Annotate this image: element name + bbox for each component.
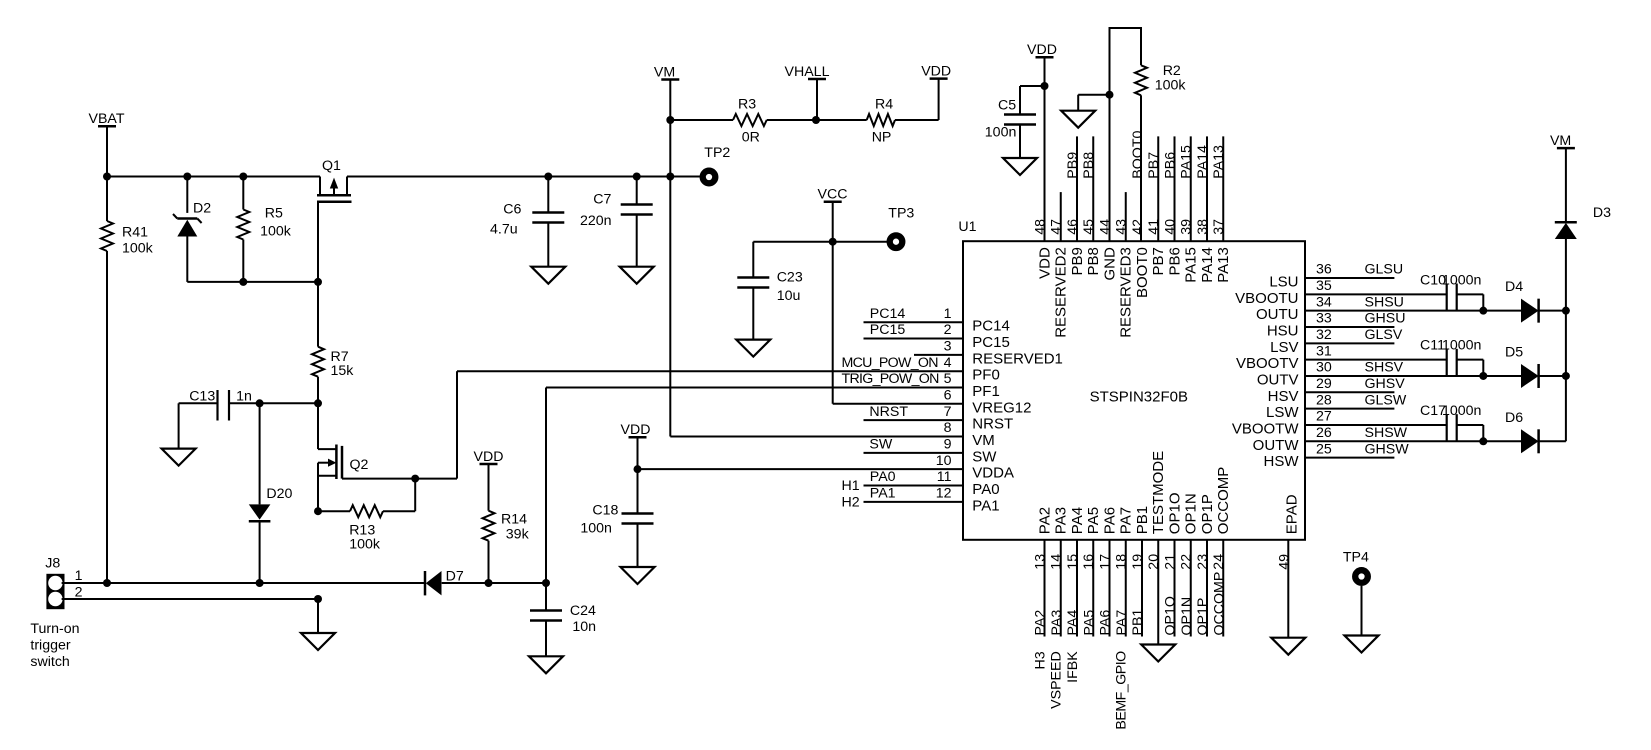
svg-text:D3: D3 [1593,205,1611,221]
power flag VBAT [98,125,116,128]
wire diode to VM bus [1539,440,1566,442]
svg-text:GHSW: GHSW [1365,441,1410,457]
resistor R2 [1135,65,1147,95]
resistor R41 [106,177,108,222]
svg-text:19: 19 [1130,554,1146,570]
pin 33 lead [1305,326,1394,328]
ground TP4 [1361,586,1363,636]
svg-text:IFBK: IFBK [1065,651,1081,683]
svg-text:PF1: PF1 [972,383,1000,400]
svg-text:D5: D5 [1505,344,1523,360]
svg-text:46: 46 [1065,219,1081,235]
svg-text:VBOOTV: VBOOTV [1236,355,1299,372]
svg-text:PA3: PA3 [1053,507,1070,534]
IC U1 STSPIN32F0B body [963,241,1305,540]
junction C11/SHS [1479,372,1487,380]
test point TP4 [1355,570,1368,583]
resistor R14 [488,465,490,511]
resistor R7 [312,347,324,377]
pin 11 lead [864,485,964,487]
pin 32 lead [1305,342,1394,344]
wire TRIG_POW_ON vertical [545,388,547,583]
transistor Q1 (P-MOSFET) [319,177,321,195]
svg-text:D20: D20 [266,486,292,502]
junction Q2 source/ground [314,595,322,603]
junction C5 [1041,82,1049,90]
resistor R4 [816,119,867,121]
svg-text:VDD: VDD [621,422,651,438]
ground EPAD [1271,638,1305,655]
pin 9 lead [864,452,964,454]
svg-text:100n: 100n [985,125,1017,141]
pin 28 lead [1305,408,1394,410]
junction VHALL [812,116,820,124]
svg-text:27: 27 [1316,409,1332,425]
capacitor C6 [544,173,552,181]
wire GND to R2 loop [1110,28,1142,95]
pin 18 lead [1125,540,1127,637]
connector J8 [46,574,64,609]
pin 1 lead [864,321,964,323]
svg-text:D7: D7 [446,568,464,584]
svg-text:OP1P: OP1P [1195,598,1211,636]
svg-text:PB1: PB1 [1134,506,1151,534]
svg-text:OP1N: OP1N [1179,597,1195,636]
junction C24/TRIG [542,579,550,587]
svg-text:34: 34 [1316,294,1332,310]
svg-text:PA1: PA1 [870,486,896,502]
ground C5 [1003,158,1037,175]
svg-text:220n: 220n [580,213,612,229]
transistor Q2 (N-MOSFET) [317,403,319,449]
svg-text:PA14: PA14 [1199,247,1216,283]
svg-text:HSW: HSW [1264,453,1300,470]
svg-text:PA15: PA15 [1179,145,1195,179]
svg-text:1n: 1n [236,388,252,404]
svg-text:1: 1 [944,306,952,322]
resistor R3 [670,119,733,121]
svg-text:PA6: PA6 [1098,610,1114,636]
svg-text:BEMF_GPIO: BEMF_GPIO [1114,651,1130,730]
pin 29 lead [1305,391,1394,393]
svg-text:PA14: PA14 [1195,145,1211,179]
junction VM/main rail [666,173,674,181]
svg-text:1000n: 1000n [1442,272,1481,288]
junction D20 bottom [256,579,264,587]
capacitor C5 [1020,85,1045,87]
pin 47 stub [1060,192,1062,241]
junction VDDA [634,465,642,473]
svg-text:HSV: HSV [1268,388,1299,405]
svg-text:PA4: PA4 [1069,507,1086,534]
svg-text:28: 28 [1316,392,1332,408]
wire VM bus [1565,239,1567,441]
svg-text:PC15: PC15 [972,334,1010,351]
svg-text:15k: 15k [331,363,355,379]
pin 41 lead / net PB7 [1157,136,1159,241]
svg-text:VDDA: VDDA [972,465,1014,482]
svg-text:7: 7 [944,404,952,420]
svg-text:12: 12 [936,486,952,502]
svg-text:C5: C5 [998,98,1016,114]
svg-text:VCC: VCC [818,187,848,203]
ground pin 44 [1078,94,1109,96]
svg-text:Q2: Q2 [350,457,369,473]
svg-text:VM: VM [972,432,995,449]
svg-text:SHSU: SHSU [1365,294,1404,310]
svg-text:GLSW: GLSW [1365,392,1407,408]
svg-text:R41: R41 [122,225,148,241]
svg-text:J8: J8 [45,556,60,572]
svg-text:32: 32 [1316,327,1332,343]
svg-text:100k: 100k [260,224,292,240]
pin 19 lead [1141,540,1143,637]
svg-text:LSW: LSW [1266,404,1299,421]
svg-text:PC15: PC15 [870,322,906,338]
pin 45 lead / net PB8 [1092,136,1094,241]
svg-text:1000n: 1000n [1442,338,1481,354]
wire D2/R5 bottom to Q1 gate node [187,281,318,283]
pin 15 lead [1076,540,1078,637]
svg-text:PC14: PC14 [870,306,906,322]
junction D2 top [183,173,191,181]
capacitor C11 [1305,359,1447,361]
capacitor C24 [545,583,547,611]
svg-text:6: 6 [944,388,952,404]
svg-text:BOOT0: BOOT0 [1130,130,1146,178]
svg-text:18: 18 [1114,554,1130,570]
pin 3 lead [914,354,963,356]
svg-text:48: 48 [1033,219,1049,235]
svg-text:VBOOTW: VBOOTW [1232,420,1300,437]
svg-text:PB9: PB9 [1069,247,1086,275]
power flag VDD (C18) [629,436,647,439]
svg-text:10: 10 [936,453,952,469]
svg-text:PB8: PB8 [1085,247,1102,275]
svg-text:TESTMODE: TESTMODE [1150,451,1167,534]
pin 49 EPAD lead [1287,540,1289,638]
wire VBAT rail [107,176,320,178]
svg-text:3: 3 [944,339,952,355]
svg-text:VDD: VDD [1037,247,1054,279]
power flag VDD (C5) [1036,56,1054,59]
svg-text:OP1O: OP1O [1167,493,1184,535]
pin 7 lead [864,419,964,421]
svg-text:22: 22 [1179,554,1195,570]
svg-text:H2: H2 [842,494,860,510]
svg-text:C13: C13 [189,388,215,404]
wire VDD pin 48 lead [1044,58,1046,242]
svg-text:OUTW: OUTW [1253,437,1300,454]
power flag VM [661,78,679,81]
svg-text:PA15: PA15 [1183,247,1200,283]
junction Q1 gate / R7 top [314,278,322,286]
wire VBAT stub [106,127,108,177]
svg-text:PA5: PA5 [1081,610,1097,636]
svg-text:PB8: PB8 [1081,152,1097,179]
wire VHALL stub [816,80,818,121]
svg-text:C18: C18 [592,503,618,519]
junction VM bus [1562,307,1570,315]
diode D5 [1521,364,1539,388]
svg-text:OUTV: OUTV [1257,371,1299,388]
junction C10/SHS [1479,307,1487,315]
pin 22 lead [1190,540,1192,637]
power flag VM (right) [1557,147,1575,150]
pin 25 lead [1305,457,1394,459]
svg-text:PA7: PA7 [1114,610,1130,636]
test point TP3 [890,235,903,248]
svg-text:10n: 10n [572,619,596,635]
pin 34 lead / phase wire [1305,310,1521,312]
svg-text:R5: R5 [265,206,283,222]
pin 46 lead / net PB9 [1076,136,1078,241]
svg-text:14: 14 [1049,554,1065,570]
svg-text:1000n: 1000n [1442,403,1481,419]
junction R5 top [239,173,247,181]
svg-text:35: 35 [1316,278,1332,294]
svg-text:25: 25 [1316,441,1332,457]
svg-text:PB9: PB9 [1065,152,1081,179]
svg-text:RESERVED3: RESERVED3 [1118,247,1135,338]
svg-text:1: 1 [75,568,83,584]
svg-text:H3: H3 [1033,651,1049,669]
capacitor C13 [216,390,218,421]
resistor R5 [242,177,244,210]
svg-text:Turn-on: Turn-on [30,621,79,637]
pin 16 lead [1092,540,1094,637]
junction pin 44 [1106,91,1114,99]
power flag VDD (R4) [930,77,948,80]
svg-text:LSV: LSV [1270,339,1298,356]
svg-text:GHSV: GHSV [1365,376,1406,392]
svg-text:0R: 0R [742,130,760,146]
svg-text:31: 31 [1316,343,1332,359]
svg-text:Q1: Q1 [322,158,341,174]
wire J8 pin1 row [62,582,425,584]
svg-text:38: 38 [1195,219,1211,235]
svg-text:PA1: PA1 [972,497,999,514]
ground C23 [736,340,770,357]
pin 17 lead [1109,540,1111,637]
ground C24 [529,656,563,673]
svg-text:11: 11 [937,469,952,485]
svg-text:100n: 100n [580,521,612,537]
junction R41 bottom [103,579,111,587]
ground C18 [621,567,655,584]
svg-text:U1: U1 [958,219,976,235]
svg-text:NRST: NRST [972,416,1013,433]
svg-text:H1: H1 [842,478,860,494]
svg-text:PF0: PF0 [972,367,1000,384]
svg-text:VDD: VDD [921,63,951,79]
svg-text:VDD: VDD [474,449,504,465]
svg-text:39: 39 [1179,219,1195,235]
svg-text:9: 9 [944,437,952,453]
pin 2 lead [864,338,964,340]
wire diode to VM bus [1539,310,1566,312]
svg-text:NRST: NRST [869,404,908,420]
svg-text:37: 37 [1211,219,1227,235]
svg-text:VDD: VDD [1027,42,1057,58]
svg-text:VHALL: VHALL [785,64,830,80]
diode D3 [1565,149,1567,223]
svg-text:PA6: PA6 [1102,507,1119,534]
diode D6 [1521,429,1539,453]
svg-text:36: 36 [1316,262,1332,278]
svg-text:PA2: PA2 [1033,610,1049,636]
junction R14 bottom [485,579,493,587]
test point TP2 [703,171,716,184]
wire VM to pin 8 [670,436,963,438]
pin 37 lead / net PA13 [1222,136,1224,241]
svg-text:R3: R3 [738,96,756,112]
pin 21 lead [1174,540,1176,637]
power flag VHALL [808,78,826,81]
svg-text:PB7: PB7 [1150,247,1167,275]
junction R7/Q2 drain [314,399,322,407]
svg-text:10u: 10u [777,288,801,304]
svg-text:100k: 100k [122,241,154,257]
diode D4 [1521,299,1539,323]
svg-text:49: 49 [1276,554,1292,570]
diode D7 [424,571,427,595]
junction Q2 source/R13 [314,507,322,515]
zener diode D2 [186,177,188,213]
svg-text:OCCOMP: OCCOMP [1215,467,1232,535]
pin 38 lead / net PA14 [1206,136,1208,241]
junction VM/R3 [666,116,674,124]
svg-text:43: 43 [1114,219,1130,235]
svg-text:PB6: PB6 [1167,247,1184,275]
svg-text:29: 29 [1316,376,1332,392]
diode D20 [259,403,261,504]
svg-text:EPAD: EPAD [1283,494,1300,534]
svg-text:GLSV: GLSV [1365,327,1403,343]
svg-text:NP: NP [872,130,892,146]
capacitor C17 [1305,424,1447,426]
wire VM column [669,80,671,437]
svg-text:LSU: LSU [1269,274,1298,291]
junction C17/SHS [1479,437,1487,445]
svg-text:RESERVED1: RESERVED1 [972,350,1063,367]
svg-text:D2: D2 [193,201,211,217]
svg-text:C23: C23 [777,270,803,286]
svg-text:OCCOMP: OCCOMP [1211,572,1227,636]
pin 24 lead [1222,540,1224,637]
wire MCU_POW_ON row [457,370,963,372]
svg-text:8: 8 [944,420,952,436]
junction C13/D20 [256,399,264,407]
svg-text:PA2: PA2 [1037,507,1054,534]
svg-text:GHSU: GHSU [1365,311,1406,327]
svg-text:switch: switch [30,654,69,670]
svg-text:26: 26 [1316,425,1332,441]
svg-text:TP4: TP4 [1343,550,1369,566]
power flag VDD (R14) [480,463,498,466]
ground C7 [620,267,654,284]
capacitor C23 [752,242,754,278]
svg-text:PA7: PA7 [1118,507,1135,534]
svg-text:PA13: PA13 [1211,145,1227,179]
svg-text:4: 4 [944,355,952,371]
svg-text:PA5: PA5 [1085,507,1102,534]
svg-text:BOOT0: BOOT0 [1134,247,1151,298]
svg-text:15: 15 [1065,554,1081,570]
svg-text:PA4: PA4 [1065,610,1081,636]
pin 43 stub [1125,192,1127,241]
svg-text:D6: D6 [1505,410,1523,426]
ground C6 [531,267,565,284]
svg-text:41: 41 [1146,219,1162,235]
svg-text:20: 20 [1146,554,1162,570]
capacitor C10 [1305,293,1447,295]
pin 12 lead [864,501,964,503]
svg-text:VREG12: VREG12 [972,399,1031,416]
svg-text:45: 45 [1081,219,1097,235]
ground C13 [162,449,196,466]
junction VCC/TP3 [829,238,837,246]
svg-text:2: 2 [75,584,83,600]
wire TRIG_POW_ON row [546,387,963,389]
junction R13/Q2 gate [411,475,419,483]
wire R4 to VDD [938,79,940,120]
svg-text:SHSV: SHSV [1365,360,1404,376]
pin 13 lead [1044,540,1046,637]
wire VDDA row [638,468,964,470]
svg-text:5: 5 [944,371,952,387]
capacitor C18 [637,438,639,514]
svg-text:PB6: PB6 [1163,152,1179,179]
power flag VCC [824,200,842,203]
svg-text:PA0: PA0 [870,469,896,485]
svg-text:GND: GND [1102,247,1119,281]
pin 36 lead [1305,277,1394,279]
svg-text:RESERVED2: RESERVED2 [1053,247,1070,338]
svg-text:C24: C24 [570,603,596,619]
svg-text:C7: C7 [593,192,611,208]
pin 30 lead / phase wire [1305,375,1521,377]
svg-text:PA13: PA13 [1215,247,1232,283]
svg-text:OP1O: OP1O [1163,596,1179,635]
svg-text:trigger: trigger [30,638,70,654]
junction VBAT/R41 [103,173,111,181]
svg-text:30: 30 [1316,360,1332,376]
svg-text:100k: 100k [1155,78,1187,94]
pin 23 lead [1206,540,1208,637]
svg-text:PB1: PB1 [1130,609,1146,636]
svg-text:C6: C6 [503,202,521,218]
svg-text:VM: VM [654,64,675,80]
svg-text:R4: R4 [875,96,893,112]
ground J8 pin2 [317,599,319,633]
svg-text:16: 16 [1081,554,1097,570]
svg-text:44: 44 [1098,219,1114,235]
wire VCC column to pin 6 [832,202,834,404]
svg-text:100k: 100k [349,536,381,552]
svg-text:TRIG_POW_ON: TRIG_POW_ON [842,371,940,387]
svg-text:PC14: PC14 [972,318,1010,335]
svg-text:OP1P: OP1P [1199,494,1216,534]
junction R5 bottom [239,278,247,286]
svg-text:PA3: PA3 [1049,610,1065,636]
svg-text:HSU: HSU [1267,322,1299,339]
svg-text:42: 42 [1130,219,1146,235]
wire Q1 drain to TP2 [347,176,700,178]
pin 40 lead / net PB6 [1174,136,1176,241]
pin 20 lead to ground [1157,540,1159,645]
svg-text:4.7u: 4.7u [490,222,518,238]
